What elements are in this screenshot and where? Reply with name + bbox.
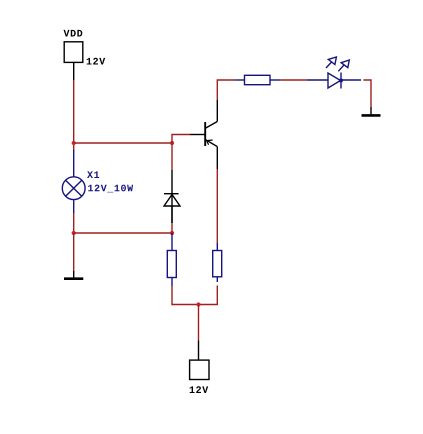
wire node C to node D	[74, 232, 172, 234]
value label 12V_10W	[88, 185, 133, 193]
ground (right)	[362, 107, 381, 115]
junction node B	[170, 141, 174, 145]
refdes label X1	[87, 171, 99, 178]
wire node C down to ground	[73, 233, 75, 271]
wire emitter down to R2	[216, 169, 218, 243]
wire collector up to top rail	[217, 80, 235, 100]
junction node C	[72, 231, 76, 235]
wire lamp to node C	[73, 213, 75, 233]
wire node B up to transistor base	[172, 135, 190, 144]
transistor Q1	[190, 100, 217, 169]
wire diode to node D	[171, 223, 173, 233]
wire LED to ground corner	[364, 80, 372, 107]
wire VDD down to node A	[73, 80, 75, 151]
power symbol VDD	[64, 42, 83, 80]
wire R3 to LED	[280, 79, 308, 81]
wire R1 to node E	[172, 286, 199, 305]
LED D2	[308, 57, 362, 89]
resistor R3	[236, 75, 281, 84]
junction node A	[72, 141, 76, 145]
ground (left)	[64, 271, 83, 279]
junction node E	[196, 302, 200, 306]
port 12V (bottom)	[190, 341, 209, 380]
resistor R1	[167, 233, 176, 286]
junction node D	[170, 231, 174, 235]
wire node E down to port	[198, 305, 200, 341]
wire node B down to diode	[171, 143, 173, 170]
wire node A to node B (base net)	[74, 142, 172, 144]
value label 12V (VDD)	[87, 58, 106, 65]
value label 12V (port)	[190, 386, 209, 393]
resistor R2	[213, 243, 222, 282]
diode D1	[164, 170, 180, 223]
label VDD	[64, 30, 83, 37]
wire R2 to node E	[199, 286, 218, 305]
lamp X1	[62, 150, 85, 213]
